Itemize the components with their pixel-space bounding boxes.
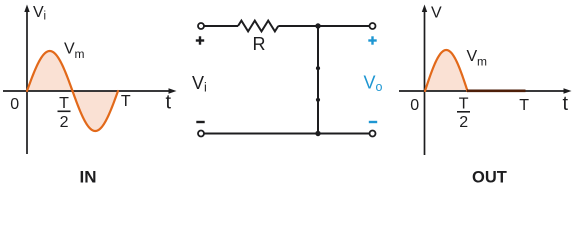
svg-text:V: V	[64, 41, 75, 58]
wire top-right	[278, 25, 369, 27]
svg-text:OUT: OUT	[472, 169, 507, 187]
svg-text:V: V	[364, 73, 376, 93]
svg-text:V: V	[467, 48, 478, 65]
label Vm out	[467, 48, 488, 69]
wire bottom	[204, 133, 370, 135]
svg-text:0: 0	[410, 97, 419, 114]
svg-text:V: V	[33, 4, 44, 21]
wire vertical	[317, 26, 319, 134]
svg-text:V: V	[192, 73, 204, 93]
svg-text:o: o	[376, 80, 383, 94]
OUT graph t-axis	[399, 88, 572, 94]
OUT graph V-axis	[422, 5, 427, 156]
plus output	[368, 36, 376, 44]
junction top	[315, 23, 320, 28]
label T/2	[58, 95, 71, 131]
junction bottom	[315, 131, 320, 136]
resistor R	[238, 21, 278, 32]
IN graph sine fill	[27, 51, 118, 131]
OUT graph half-sine curve	[425, 50, 468, 91]
IN graph t-axis	[3, 88, 177, 94]
terminal bottom-right	[370, 131, 376, 137]
IN graph V-axis	[24, 5, 29, 155]
minus output	[369, 121, 377, 123]
svg-text:i: i	[44, 11, 47, 23]
svg-text:T: T	[519, 97, 529, 114]
svg-text:T: T	[121, 93, 131, 110]
svg-text:i: i	[204, 81, 207, 95]
terminal top-left	[198, 23, 204, 29]
wire top-left	[204, 25, 238, 27]
svg-text:R: R	[253, 34, 266, 54]
tick node lower	[316, 98, 320, 102]
svg-text:m: m	[477, 55, 487, 69]
terminal bottom-left	[198, 131, 204, 137]
minus input	[196, 121, 204, 123]
OUT graph sine fill	[425, 50, 468, 91]
svg-text:t: t	[563, 93, 569, 115]
terminal top-right	[370, 23, 376, 29]
svg-text:2: 2	[459, 114, 468, 131]
svg-text:2: 2	[60, 114, 69, 131]
svg-text:IN: IN	[80, 168, 97, 187]
label T/2 out	[457, 95, 470, 131]
svg-text:0: 0	[10, 96, 19, 113]
label Vo output	[364, 73, 383, 95]
svg-text:t: t	[166, 92, 172, 114]
svg-text:m: m	[75, 47, 85, 61]
zero output segment	[467, 90, 526, 93]
IN graph sine curve Vi	[27, 51, 118, 131]
svg-text:T: T	[59, 95, 69, 112]
plus input	[196, 36, 204, 44]
label Vi input	[192, 73, 207, 95]
svg-text:V: V	[431, 5, 442, 22]
tick node upper	[316, 66, 320, 70]
svg-text:T: T	[459, 95, 469, 112]
